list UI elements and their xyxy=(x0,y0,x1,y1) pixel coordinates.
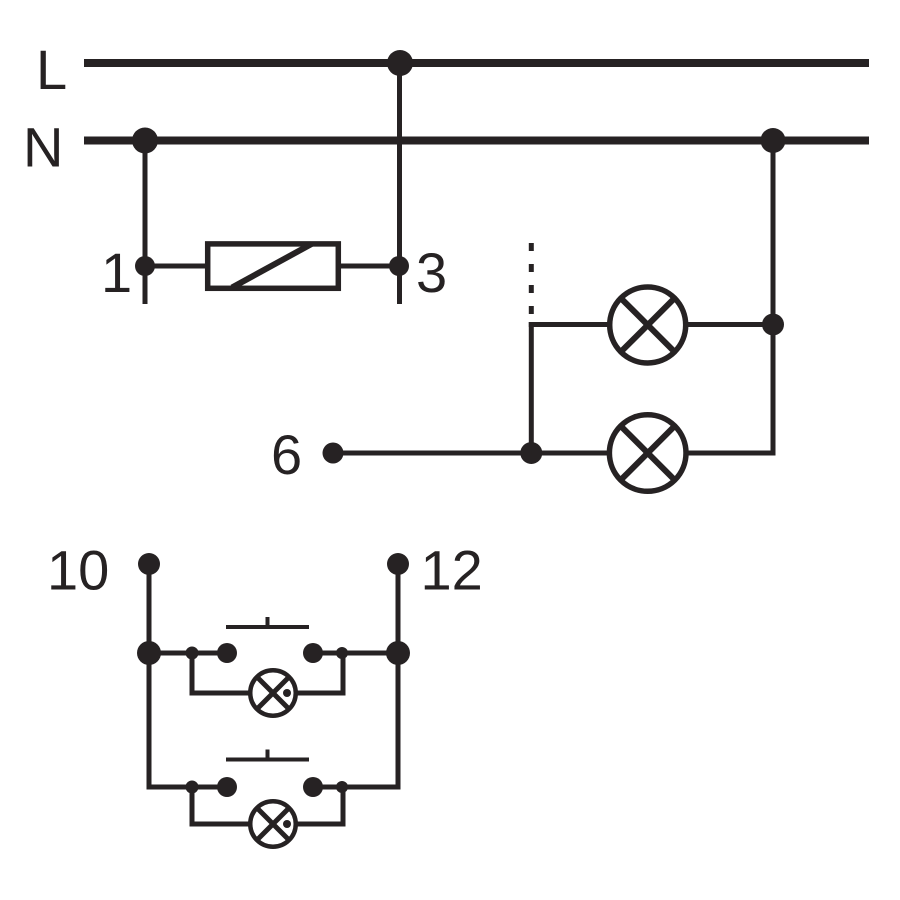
S1 right contact xyxy=(303,643,323,663)
junction left upper switch row xyxy=(137,641,161,665)
junction on L bus above terminal 3 xyxy=(387,50,413,76)
junction on N bus above lamp column xyxy=(761,128,786,153)
S1 left contact xyxy=(217,643,237,663)
S2 left contact xyxy=(217,777,237,797)
svg-text:6: 6 xyxy=(271,423,302,486)
S2 indicator lamp xyxy=(250,801,296,847)
wire from N bus down to terminal 1 xyxy=(143,141,148,305)
L bus wire xyxy=(84,59,869,67)
S2 left branch node xyxy=(186,781,199,794)
terminal dot 6 xyxy=(323,443,344,464)
svg-text:12: 12 xyxy=(421,539,483,602)
left vertical wire with corner to lower switch xyxy=(149,564,227,787)
terminal dot 3 xyxy=(389,256,409,276)
wire from L bus down to terminal 3 xyxy=(397,63,402,304)
junction right upper switch row xyxy=(386,641,410,665)
push-button S2 actuator xyxy=(226,750,309,762)
S1 lamp inner dot xyxy=(283,689,291,697)
svg-text:L: L xyxy=(36,38,67,101)
lamp E2 xyxy=(609,415,686,492)
wire to S1 left contact xyxy=(149,651,227,656)
svg-text:3: 3 xyxy=(416,241,447,304)
wire to S2 left contact xyxy=(149,785,227,790)
S2 lamp right branch wire xyxy=(296,787,343,824)
S1 lamp left branch wire xyxy=(192,653,250,693)
S1 left branch node xyxy=(186,647,199,660)
terminal dot 1 xyxy=(135,256,155,276)
timer coil diagonal xyxy=(232,244,312,288)
S2 lamp inner dot xyxy=(283,820,291,828)
terminal dot 10 xyxy=(138,553,160,575)
push-button S1 actuator xyxy=(226,617,309,629)
dashed wire above lamp group xyxy=(529,243,534,318)
wire terminal 1 to timer box xyxy=(145,264,208,269)
right vertical wire with corner to lower switch xyxy=(313,564,398,787)
junction on N bus above terminal 1 xyxy=(132,128,158,154)
wire to lamp E1 left xyxy=(529,322,609,327)
S2 right branch node xyxy=(336,781,348,793)
N bus wire xyxy=(84,137,869,145)
lamp E1 xyxy=(610,287,686,363)
wire lamp E2 to junction xyxy=(531,451,609,456)
timer coil box xyxy=(208,244,339,288)
left vertical wire of lamp group xyxy=(529,322,534,453)
svg-text:1: 1 xyxy=(101,241,132,304)
junction below dashed wire xyxy=(520,442,542,464)
junction right of lamp E1 xyxy=(762,314,784,336)
S1 right branch node xyxy=(336,647,348,659)
wire timer box to terminal 3 xyxy=(338,264,399,269)
wire right column to lamp E2 xyxy=(686,451,776,456)
right vertical wire from N bus xyxy=(771,141,776,454)
wire lamp E1 to right column xyxy=(686,322,773,327)
wire junction to terminal 6 xyxy=(333,451,531,456)
S1 indicator lamp xyxy=(250,670,296,716)
svg-text:10: 10 xyxy=(47,539,109,602)
svg-text:N: N xyxy=(23,116,63,179)
terminal dot 12 xyxy=(387,553,409,575)
S2 lamp left branch wire xyxy=(192,787,250,824)
S1 lamp right branch wire xyxy=(296,653,343,693)
wire to S1 right contact xyxy=(313,651,398,656)
S2 right contact xyxy=(303,777,323,797)
